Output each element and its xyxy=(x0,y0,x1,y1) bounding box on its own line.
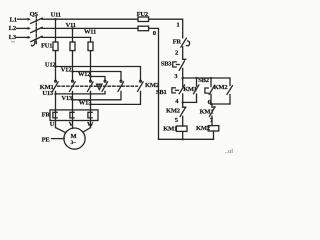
coil KM1 xyxy=(163,125,187,139)
svg-text:L1: L1 xyxy=(10,16,17,23)
wire bottom return xyxy=(159,138,214,140)
svg-text:U11: U11 xyxy=(51,11,61,18)
wire node4 join xyxy=(183,101,197,103)
button SB3 xyxy=(161,59,186,70)
wire node3 bus xyxy=(183,78,230,85)
wire W12 branch xyxy=(91,77,106,80)
wire U11 drop xyxy=(55,19,57,42)
button SB1 xyxy=(156,78,185,102)
node U13 xyxy=(42,90,56,97)
wire line 1 xyxy=(149,19,183,38)
svg-text:0: 0 xyxy=(153,30,157,37)
svg-text:W12: W12 xyxy=(78,71,90,78)
contact KM1 auxiliary xyxy=(183,85,199,102)
node V13 xyxy=(61,95,73,102)
wire 0 rail xyxy=(149,28,159,139)
svg-text:FR: FR xyxy=(42,111,51,118)
svg-text:2: 2 xyxy=(175,50,179,57)
svg-text:KM1: KM1 xyxy=(163,125,177,132)
node 7 xyxy=(210,117,214,124)
svg-text:U: U xyxy=(50,121,55,128)
svg-text:V12: V12 xyxy=(61,66,72,73)
terminal L1 xyxy=(10,16,31,23)
wire V12 branch xyxy=(73,72,122,80)
node W12 xyxy=(78,71,92,78)
svg-text:L3: L3 xyxy=(9,34,17,41)
interlock symbol xyxy=(97,84,102,89)
node U11 xyxy=(51,11,61,20)
svg-text:PE: PE xyxy=(42,136,50,143)
svg-text:FU1: FU1 xyxy=(41,43,52,50)
wire segment 3 xyxy=(182,68,184,78)
wire W12 vertical xyxy=(90,51,92,81)
terminal L3 xyxy=(9,34,31,41)
node 4 xyxy=(175,98,184,105)
wire KM1 aux drop xyxy=(195,77,197,86)
node 5 xyxy=(175,117,179,124)
node 0 xyxy=(153,30,157,37)
wire U13 link xyxy=(56,91,106,94)
contactor KM2 main contacts xyxy=(102,80,159,91)
node W11 xyxy=(84,29,96,36)
svg-text:L2: L2 xyxy=(9,25,16,32)
node 3 xyxy=(174,73,184,80)
svg-text:V13: V13 xyxy=(61,95,73,102)
wire W11 drop xyxy=(90,37,92,42)
svg-text:SB2: SB2 xyxy=(198,77,209,84)
smudge artifact faint xyxy=(11,41,15,43)
node W13 xyxy=(79,99,92,106)
wire U phase to FR xyxy=(55,91,57,127)
wire segment 1-2 xyxy=(182,47,184,59)
switch QS xyxy=(30,11,43,46)
fuse FU2 xyxy=(137,11,149,31)
svg-text:..ul: ..ul xyxy=(225,149,233,155)
contact KM2 auxiliary xyxy=(214,84,233,104)
contactor KM1 main contacts xyxy=(40,80,93,91)
relay contact FR xyxy=(173,38,190,47)
svg-text:7: 7 xyxy=(210,117,214,124)
node V11 xyxy=(66,22,76,29)
wire L3 row xyxy=(42,36,91,38)
svg-text:1: 1 xyxy=(176,21,179,28)
node U12 xyxy=(45,62,57,69)
wire V13 link xyxy=(73,91,122,99)
coil KM2 xyxy=(196,125,219,139)
contact KM2 interlock xyxy=(166,102,186,126)
node 1 xyxy=(176,21,179,28)
svg-text:4: 4 xyxy=(175,98,179,105)
svg-text:V: V xyxy=(69,121,74,128)
wire V phase to FR xyxy=(72,91,74,128)
svg-text:SB3: SB3 xyxy=(161,60,173,67)
motor M 3~ xyxy=(56,128,91,150)
svg-text:U12: U12 xyxy=(45,62,56,69)
svg-text:QS: QS xyxy=(30,11,39,18)
fuse FU1 xyxy=(41,42,93,51)
svg-text:U13: U13 xyxy=(42,90,54,97)
wire U12 vertical xyxy=(55,51,57,81)
wire node6 join xyxy=(211,103,230,105)
wire V11 drop xyxy=(72,28,74,42)
node 2 xyxy=(175,50,179,57)
mechanical linkage dashes xyxy=(58,85,138,87)
ground PE xyxy=(42,136,65,143)
svg-text:V11: V11 xyxy=(66,22,76,29)
contact KM1 interlock xyxy=(200,104,216,126)
button SB2 xyxy=(198,77,214,104)
wire SB2 drop xyxy=(210,77,212,87)
wire U12 branch xyxy=(56,67,141,80)
wire V12 vertical xyxy=(72,51,74,81)
svg-text:5: 5 xyxy=(175,117,179,124)
svg-text:FR: FR xyxy=(173,38,182,45)
svg-text:SB1: SB1 xyxy=(156,89,167,96)
node 6 xyxy=(208,99,213,106)
wire W phase to FR xyxy=(90,91,92,127)
svg-text:3: 3 xyxy=(174,73,178,80)
wire L1 row xyxy=(42,18,138,20)
svg-text:3~: 3~ xyxy=(70,140,76,146)
svg-text:KM2: KM2 xyxy=(214,84,228,91)
terminal L2 xyxy=(9,25,31,32)
svg-text:M: M xyxy=(70,133,76,140)
svg-text:W11: W11 xyxy=(84,29,96,36)
svg-text:KM2: KM2 xyxy=(166,107,180,114)
wire L2 row xyxy=(42,27,138,29)
thermal relay FR heaters xyxy=(42,110,98,121)
node V12 xyxy=(61,66,74,73)
wire W13 link xyxy=(91,91,141,104)
motor terminal labels xyxy=(50,121,94,128)
